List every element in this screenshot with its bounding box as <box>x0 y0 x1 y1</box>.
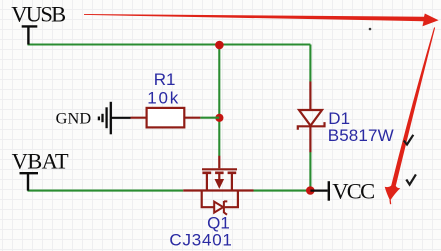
gate lead <box>218 156 220 169</box>
pin 2 of R1 <box>184 117 200 119</box>
port VUSB <box>11 1 66 44</box>
cathode pin of D1 <box>309 126 311 152</box>
svg-text:VBAT: VBAT <box>12 149 69 174</box>
svg-text:10k: 10k <box>147 88 179 107</box>
port VBAT <box>12 149 69 191</box>
check mark 1 <box>404 135 414 145</box>
power port pin VCC <box>310 190 327 192</box>
wire gate net vertical <box>218 45 220 157</box>
transistor Q1 (P-MOSFET) <box>169 156 253 250</box>
ground GND <box>56 102 131 135</box>
wire GND to R1 <box>112 117 131 119</box>
body diode <box>214 202 223 213</box>
anode pin of D1 <box>309 82 311 111</box>
wire VCC net horizontal <box>254 190 311 192</box>
node junction R1-gate <box>215 114 223 122</box>
ground bars <box>110 102 112 135</box>
svg-text:CJ3401: CJ3401 <box>169 230 232 249</box>
svg-text:GND: GND <box>56 109 92 128</box>
resistor body R1 <box>147 108 185 128</box>
power port bar VUSB <box>22 26 38 44</box>
svg-text:VCC: VCC <box>332 179 375 204</box>
pin 1 of R1 <box>131 117 147 119</box>
diode D1 <box>298 82 394 153</box>
power port bar VCC <box>328 181 330 201</box>
source stub <box>231 173 233 191</box>
channel plates <box>202 172 236 175</box>
wire R1 to gate net <box>200 117 219 119</box>
annotation red arrow horizontal <box>84 14 439 27</box>
node junction VCC <box>306 186 315 195</box>
svg-text:R1: R1 <box>154 70 176 89</box>
wire VUSB net top horizontal <box>28 43 311 45</box>
power port bar VBAT <box>20 173 39 190</box>
speck <box>369 28 372 31</box>
check mark 2 <box>406 174 416 184</box>
wire diode anode vertical <box>309 45 311 82</box>
svg-text:VUSB: VUSB <box>11 1 66 26</box>
wire diode cathode to VCC vertical <box>309 152 311 191</box>
body diode loop <box>202 191 238 208</box>
gate bar <box>202 168 237 170</box>
wire VBAT net bottom horizontal <box>28 190 184 192</box>
drain stub <box>206 173 208 191</box>
resistor R1 <box>131 70 220 127</box>
diode triangle D1 <box>299 110 322 126</box>
bulk stub with arrow <box>218 173 220 180</box>
node junction top <box>215 41 224 50</box>
schottky cathode bar D1 <box>298 122 325 130</box>
drain-source line with pins <box>183 189 253 191</box>
svg-text:B5817W: B5817W <box>328 126 394 145</box>
annotation red arrow diagonal <box>391 27 435 186</box>
port VCC <box>310 179 375 204</box>
